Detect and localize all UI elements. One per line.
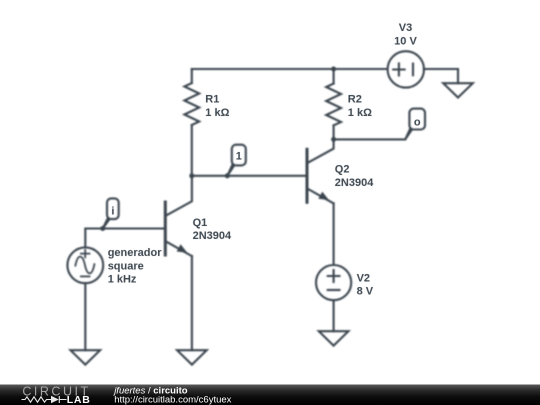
svg-text:V3: V3 — [399, 22, 412, 34]
svg-text:1: 1 — [236, 151, 242, 163]
svg-text:1 kΩ: 1 kΩ — [205, 107, 229, 119]
svg-text:8 V: 8 V — [357, 286, 374, 298]
svg-text:2N3904: 2N3904 — [193, 230, 232, 242]
svg-text:LAB: LAB — [67, 394, 91, 405]
svg-text:V2: V2 — [357, 272, 370, 284]
svg-text:Q1: Q1 — [193, 217, 208, 229]
svg-text:http://circuitlab.com/c6ytuex: http://circuitlab.com/c6ytuex — [114, 395, 231, 405]
svg-text:1 kΩ: 1 kΩ — [348, 107, 372, 119]
svg-text:generador: generador — [108, 247, 163, 259]
svg-text:Q2: Q2 — [335, 164, 350, 176]
svg-text:o: o — [414, 117, 421, 129]
svg-text:10 V: 10 V — [394, 35, 417, 47]
svg-text:R1: R1 — [205, 93, 219, 105]
svg-text:square: square — [108, 260, 144, 272]
svg-text:1 kHz: 1 kHz — [108, 274, 137, 286]
svg-text:2N3904: 2N3904 — [335, 177, 374, 189]
svg-text:i: i — [111, 205, 114, 217]
svg-text:R2: R2 — [348, 93, 362, 105]
